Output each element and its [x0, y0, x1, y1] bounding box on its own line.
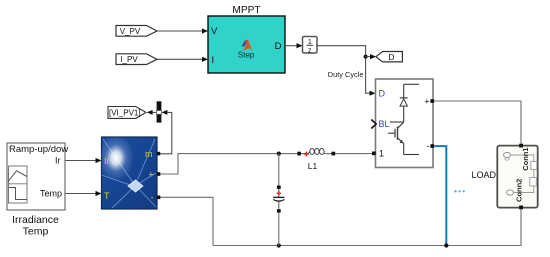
svg-text:T: T: [104, 191, 110, 201]
wire junction to goto D: [366, 54, 376, 59]
svg-text:L1: L1: [308, 161, 318, 171]
svg-text:BL: BL: [379, 119, 390, 129]
svg-text:LOAD: LOAD: [471, 170, 496, 180]
wire V_PV to MPPT: [157, 28, 208, 33]
svg-text:Ir: Ir: [55, 156, 61, 166]
wire inductor to converter port 1: [335, 153, 372, 155]
From tag I_PV: [116, 54, 157, 65]
wire converter - blue: [434, 146, 446, 245]
svg-text:+: +: [424, 96, 429, 106]
wire Ramp Temp to PV: [65, 191, 102, 196]
port 1 square: [372, 152, 376, 156]
goto tag D: [376, 52, 403, 62]
svg-text:-: -: [151, 193, 154, 203]
wire converter + to LOAD Conn1: [434, 101, 521, 144]
svg-text:Ramp-up/dow: Ramp-up/dow: [9, 144, 68, 155]
junction dot capacitor on rail: [277, 243, 281, 247]
wire PV minus to rail: [160, 197, 213, 245]
svg-text:Irradiance: Irradiance: [12, 214, 59, 226]
svg-text:Ir: Ir: [104, 156, 110, 166]
wire MPPT D to unit delay: [285, 43, 303, 48]
converter internal IGBT: [388, 122, 419, 155]
subsystem MPPT: [208, 5, 285, 73]
svg-text:1: 1: [379, 149, 384, 159]
capacitor C: [273, 186, 284, 213]
svg-text:D: D: [388, 52, 394, 62]
converter internal diode: [400, 84, 419, 122]
junction dot: [364, 55, 368, 59]
source block Ramp-up/down: [7, 143, 68, 210]
port + square: [430, 99, 434, 103]
From tag V_PV: [116, 26, 157, 37]
svg-text:D: D: [379, 89, 386, 99]
svg-text:Conn1: Conn1: [521, 147, 530, 170]
svg-text:Conn2: Conn2: [514, 179, 523, 202]
annotation blue dots: [454, 190, 465, 192]
label Irradiance Temp: [12, 214, 59, 238]
svg-text:[VI_PV1]: [VI_PV1]: [109, 109, 141, 118]
svg-text:I_PV: I_PV: [120, 55, 138, 64]
wire PV plus to inductor: [160, 154, 297, 174]
inductor L1: [297, 149, 335, 157]
svg-text:m: m: [145, 149, 153, 159]
converter block body: [376, 79, 434, 168]
svg-text:D: D: [275, 41, 282, 52]
svg-text:Temp: Temp: [40, 189, 62, 199]
junction dot capacitor top: [277, 152, 281, 156]
PV array block: [102, 137, 161, 209]
svg-text:I: I: [212, 55, 215, 66]
port - square: [430, 144, 434, 148]
junction dot blue wire on rail: [444, 243, 448, 247]
MATLAB logo in MPPT: [242, 40, 253, 51]
capacitor C branch wires: [278, 154, 280, 246]
wire I_PV to MPPT: [157, 57, 208, 62]
mux block: [156, 101, 161, 122]
bottom rail wire: [213, 209, 521, 245]
LOAD internal preview: [504, 147, 537, 202]
wire PV m to mux: [161, 110, 172, 154]
svg-text:V_PV: V_PV: [120, 27, 141, 36]
BL chevron port: [371, 120, 376, 129]
svg-text:V: V: [211, 26, 218, 37]
wire unit delay to junction and down to converter D: [317, 46, 376, 96]
svg-text:Step: Step: [238, 51, 255, 60]
goto tag VI_PV1: [108, 107, 146, 119]
subsystem LOAD: [497, 144, 537, 210]
svg-text:Duty Cycle: Duty Cycle: [328, 70, 364, 79]
svg-text:+: +: [148, 170, 153, 180]
svg-text:-: -: [427, 141, 430, 151]
svg-text:MPPT: MPPT: [232, 5, 260, 16]
svg-text:Temp: Temp: [23, 225, 49, 237]
unit delay 1/z: [303, 37, 318, 55]
wire Ramp Ir to PV: [65, 158, 102, 163]
wire mux to tag: [147, 110, 157, 115]
svg-text:z: z: [308, 47, 312, 54]
